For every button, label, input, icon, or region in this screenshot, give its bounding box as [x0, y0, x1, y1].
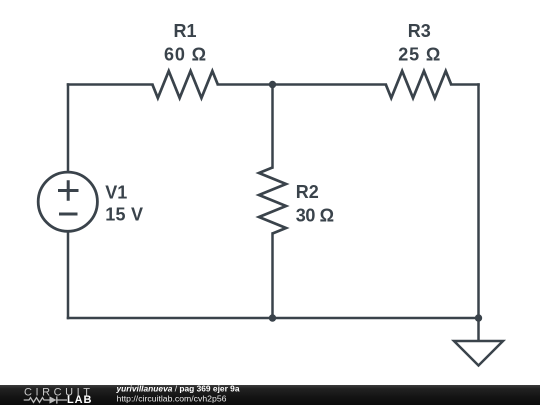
- svg-text:15 V: 15 V: [105, 205, 143, 225]
- wire ground stub: [477, 318, 480, 341]
- wire middle upper (R2 top lead): [271, 85, 274, 168]
- V1 minus sign: [59, 213, 78, 216]
- node junction top middle: [269, 81, 276, 88]
- wire middle lower (R2 bottom lead): [271, 234, 274, 319]
- wire right vertical: [477, 85, 480, 319]
- wire bottom segment: [68, 317, 479, 320]
- svg-text:yurivillanueva / pag 369 ejer: yurivillanueva / pag 369 ejer 9a: [116, 383, 240, 393]
- svg-text:V1: V1: [105, 182, 127, 202]
- wire top-right segment: [451, 83, 478, 86]
- V1 plus sign: [58, 180, 79, 201]
- node junction bottom right: [475, 314, 482, 321]
- node junction bottom middle: [269, 314, 276, 321]
- ground: [454, 341, 503, 366]
- svg-text:R2: R2: [296, 182, 319, 202]
- svg-text:R1: R1: [173, 21, 196, 41]
- svg-text:R3: R3: [408, 21, 431, 41]
- svg-text:30 Ω: 30 Ω: [296, 205, 334, 225]
- resistor R1: [152, 71, 217, 98]
- logo diode symbol: [50, 396, 57, 403]
- svg-text:60 Ω: 60 Ω: [164, 44, 206, 64]
- voltage source V1 circle: [38, 172, 97, 231]
- logo schematic squiggle wire: [24, 398, 67, 403]
- resistor R2: [259, 168, 286, 234]
- svg-text:LAB: LAB: [67, 394, 92, 405]
- wire top-left segment: [68, 83, 152, 86]
- svg-text:25 Ω: 25 Ω: [398, 44, 440, 64]
- wire left lower (V1 bottom lead): [67, 232, 70, 319]
- svg-text:http://circuitlab.com/cvh2p56: http://circuitlab.com/cvh2p56: [117, 394, 227, 404]
- resistor R3: [386, 71, 451, 98]
- footer bar: [0, 385, 540, 405]
- logo diode bar: [56, 396, 58, 403]
- wire left upper (V1 top lead): [67, 85, 70, 173]
- wire top-middle segment: [218, 83, 386, 86]
